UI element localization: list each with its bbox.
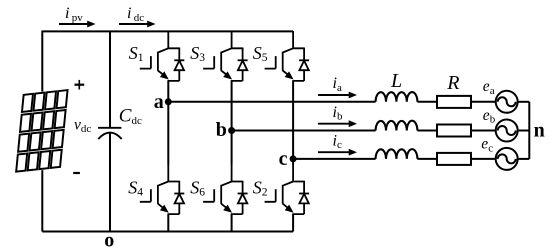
svg-text:S6: S6 — [190, 177, 205, 198]
capacitor C_dc plates — [98, 128, 122, 139]
svg-text:ic: ic — [333, 132, 342, 151]
wire: node b to S6 collector — [231, 131, 233, 165]
wire: e_b to neutral bus — [518, 130, 530, 132]
svg-text:a: a — [154, 91, 164, 113]
svg-text:c: c — [279, 148, 288, 170]
wire: bottom DC bus — [42, 231, 293, 233]
svg-text:ipv: ipv — [65, 5, 83, 24]
solar PV panel — [15, 89, 69, 174]
svg-text:R: R — [446, 72, 459, 94]
transistor S6 (IGBT with antiparallel diode) — [203, 164, 248, 214]
svg-text:S5: S5 — [253, 43, 268, 64]
ac source e_b — [496, 120, 518, 142]
node a junction dot — [165, 98, 172, 105]
resistor (phase b) — [437, 125, 471, 137]
transistor S2 (IGBT with antiparallel diode) — [265, 164, 310, 214]
svg-text:n: n — [534, 120, 545, 142]
node b junction dot — [228, 127, 235, 134]
wire: leg 3 emitter to node c — [292, 81, 294, 159]
resistor R (phase a) — [437, 96, 471, 108]
ac source e_a — [496, 91, 518, 113]
svg-text:S2: S2 — [253, 177, 268, 198]
svg-text:S3: S3 — [190, 43, 205, 64]
arrow i_pv (PV current) — [59, 21, 96, 28]
transistor S5 (IGBT with antiparallel diode) — [265, 31, 310, 81]
svg-text:b: b — [216, 119, 227, 141]
wire: S6 emitter to bottom bus — [231, 214, 233, 231]
ac source e_c — [496, 148, 518, 170]
svg-text:o: o — [104, 230, 114, 252]
inductor (phase c) — [376, 149, 418, 159]
wire: S4 emitter to bottom bus — [167, 214, 169, 231]
svg-text:ea: ea — [483, 78, 495, 97]
inductor L (phase a) — [376, 92, 418, 102]
wire: left vertical lead from top bus to PV panel — [41, 31, 43, 94]
wire: capacitor branch lower lead — [109, 133, 111, 232]
wire: capacitor branch upper lead — [109, 31, 111, 127]
transistor S1 (IGBT with antiparallel diode) — [140, 31, 185, 81]
label - (PV negative terminal) — [73, 172, 80, 174]
wire: left vertical lead from PV panel to bottom bus — [41, 168, 43, 232]
svg-text:idc: idc — [127, 5, 144, 24]
svg-text:S4: S4 — [128, 177, 143, 198]
arrow i_c (phase c current) — [318, 149, 357, 156]
wire: leg 1 emitter to node a — [167, 81, 169, 102]
wire: top DC bus — [42, 30, 293, 32]
wire: leg 2 emitter to node b — [231, 81, 233, 131]
svg-text:eb: eb — [483, 107, 496, 126]
arrow i_a (phase a current) — [318, 92, 357, 99]
wire: neutral bus n — [528, 102, 530, 159]
arrow i_b (phase b current) — [318, 120, 357, 127]
wire: node c to S2 collector — [292, 159, 294, 165]
wire: phase c line — [293, 158, 496, 160]
arrow i_dc (DC-link current) — [119, 21, 156, 28]
svg-text:ib: ib — [333, 104, 343, 123]
svg-text:ia: ia — [333, 75, 342, 94]
svg-text:ec: ec — [481, 136, 493, 155]
resistor (phase c) — [437, 153, 471, 165]
transistor S3 (IGBT with antiparallel diode) — [203, 31, 248, 81]
node c junction dot — [290, 155, 297, 162]
wire: e_a to neutral bus — [518, 101, 530, 103]
wire: phase a line — [168, 101, 495, 103]
transistor S4 (IGBT with antiparallel diode) — [140, 164, 185, 214]
svg-text:S1: S1 — [129, 43, 144, 64]
wire: node a to S4 collector — [167, 102, 169, 165]
wire: phase b line — [232, 130, 496, 132]
label + (PV positive terminal) — [75, 80, 85, 90]
inductor (phase b) — [376, 121, 418, 131]
wire: e_c to neutral bus — [518, 158, 530, 160]
wire: S2 emitter to bottom bus — [292, 214, 294, 231]
svg-text:Cdc: Cdc — [119, 106, 142, 127]
svg-text:vdc: vdc — [74, 116, 91, 135]
svg-text:L: L — [390, 70, 402, 92]
